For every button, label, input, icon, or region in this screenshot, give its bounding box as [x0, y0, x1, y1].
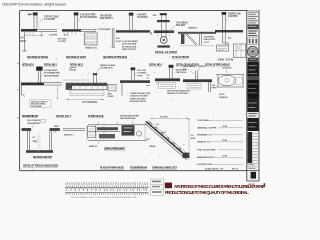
- svg-text:STAIR AND LANDING DET: STAIR AND LANDING DET: [152, 167, 177, 170]
- svg-text:PLATE: PLATE: [108, 95, 115, 98]
- svg-text:LOCKING: LOCKING: [137, 73, 147, 75]
- svg-text:INLET: INLET: [71, 69, 77, 71]
- svg-text:LENGTH OF PIPE RUN: LENGTH OF PIPE RUN: [167, 93, 188, 95]
- svg-text:PIPE: PIPE: [212, 88, 217, 90]
- svg-text:OVERFLOW: OVERFLOW: [228, 13, 241, 15]
- svg-text:W CAP SCREEN: W CAP SCREEN: [80, 16, 97, 19]
- svg-text:TOP OF CONC: TOP OF CONC: [44, 17, 59, 19]
- svg-text:4 ELBOW 2 IN 90: 4 ELBOW 2 IN 90: [130, 100, 147, 103]
- svg-text:DETAIL OF PIPE SADDLE: DETAIL OF PIPE SADDLE: [205, 63, 230, 66]
- svg-text:PLAN OF PUMP HOUSE: PLAN OF PUMP HOUSE: [100, 167, 124, 170]
- svg-text:LINE SLOPE: LINE SLOPE: [204, 39, 216, 41]
- svg-text:2 VALVE 2 IN GATE: 2 VALVE 2 IN GATE: [130, 95, 149, 98]
- svg-text:NO 12: NO 12: [232, 168, 239, 170]
- svg-text:PLAN AT DRAIN: PLAN AT DRAIN: [172, 56, 189, 59]
- svg-text:4-1/2 CRS BARS: 4-1/2 CRS BARS: [122, 40, 138, 43]
- svg-text:1-2 FT: 1-2 FT: [204, 42, 210, 44]
- svg-text:FOUNDATION PLAN: FOUNDATION PLAN: [130, 167, 147, 170]
- svg-text:POST 3 IN STD PIPE: POST 3 IN STD PIPE: [197, 150, 216, 152]
- svg-text:SCALE 3/4 IN - 1 FT: SCALE 3/4 IN - 1 FT: [205, 167, 224, 170]
- svg-text:END VIEW: END VIEW: [218, 58, 234, 61]
- svg-text:BASE PL: BASE PL: [89, 145, 98, 148]
- svg-text:2 IN: 2 IN: [183, 69, 187, 71]
- svg-text:1/2 IN: 1/2 IN: [222, 140, 227, 142]
- svg-text:12-0 OVERALL: 12-0 OVERALL: [82, 101, 98, 104]
- svg-text:STRINGER C 10: STRINGER C 10: [197, 135, 212, 137]
- svg-text:TREAD: TREAD: [149, 145, 156, 148]
- svg-text:GENERAL ARRANGEMENT: GENERAL ARRANGEMENT: [104, 147, 126, 150]
- svg-text:PHOTOGRAPHIC REDUCTION SCALE F: PHOTOGRAPHIC REDUCTION SCALE FOR MICROFI…: [71, 196, 137, 199]
- svg-text:GRATING: GRATING: [188, 27, 197, 30]
- svg-text:1 TANK 500 GAL CAP: 1 TANK 500 GAL CAP: [130, 92, 151, 95]
- svg-text:RISE: RISE: [191, 138, 196, 140]
- svg-text:3/8 PL EA SIDE: 3/8 PL EA SIDE: [122, 43, 137, 46]
- svg-text:MICRO: MICRO: [249, 184, 256, 186]
- svg-text:8-0 RUN: 8-0 RUN: [160, 116, 168, 118]
- svg-text:DETAIL OF TROUGH AND COVER: DETAIL OF TROUGH AND COVER: [23, 164, 58, 167]
- svg-text:DETAIL NO 1: DETAIL NO 1: [22, 63, 35, 66]
- svg-text:1 2 3 4 5 6 7 8 9 10 11 12 13: 1 2 3 4 5 6 7 8 9 10 11 12 13 14 15 16: [66, 189, 148, 192]
- svg-text:SECTION AT DRAIN: SECTION AT DRAIN: [27, 55, 48, 59]
- svg-text:HANDRAIL 1 1/4 PIPE: HANDRAIL 1 1/4 PIPE: [197, 127, 217, 130]
- svg-text:PRODUCTION DUE TO THE QUALITY: PRODUCTION DUE TO THE QUALITY OF THE ORI…: [165, 190, 249, 195]
- svg-text:SECTION AT PIPE RUN: SECTION AT PIPE RUN: [103, 55, 127, 59]
- svg-text:2 IN VENT PIPE: 2 IN VENT PIPE: [80, 15, 96, 17]
- svg-text:RISER: RISER: [199, 66, 205, 68]
- svg-text:COVER 20 IN: COVER 20 IN: [100, 68, 113, 70]
- svg-text:UNIT MOUNTED: UNIT MOUNTED: [120, 118, 136, 120]
- svg-text:RETURN BEND: RETURN BEND: [44, 75, 59, 77]
- svg-text:PUMP DETAIL: PUMP DETAIL: [88, 115, 104, 118]
- svg-text:2-6 PIPE: 2-6 PIPE: [49, 34, 58, 36]
- svg-text:BASE ANGLE 3X3: BASE ANGLE 3X3: [197, 156, 214, 159]
- svg-text:TREAD PL 1/4: TREAD PL 1/4: [197, 141, 211, 144]
- svg-text:MOTOR AND PUMP: MOTOR AND PUMP: [120, 114, 140, 117]
- svg-text:SIDE OF POST: SIDE OF POST: [122, 49, 137, 51]
- svg-text:FILL CAP: FILL CAP: [137, 69, 147, 72]
- svg-text:DETAIL OF RISER: DETAIL OF RISER: [155, 51, 177, 54]
- svg-text:3 PIPE 2 IN GALV: 3 PIPE 2 IN GALV: [130, 97, 147, 100]
- svg-text:POST: POST: [116, 41, 122, 43]
- svg-text:FOOTING CONC: FOOTING CONC: [197, 164, 213, 166]
- svg-text:SECTION AT VENT: SECTION AT VENT: [66, 55, 86, 59]
- svg-text:1/2 IN: 1/2 IN: [222, 126, 227, 128]
- svg-text:DETAIL NO 5: DETAIL NO 5: [149, 63, 163, 66]
- svg-text:FILTER BED: FILTER BED: [99, 29, 111, 31]
- svg-text:TO DRAIN: TO DRAIN: [137, 16, 148, 19]
- svg-text:1/2 BOLTS: 1/2 BOLTS: [222, 68, 232, 70]
- svg-text:SADDLE: SADDLE: [219, 96, 228, 99]
- svg-text:DETAIL NO 7: DETAIL NO 7: [56, 115, 72, 118]
- svg-text:SEE DET: SEE DET: [176, 25, 186, 27]
- svg-text:1-4 SLOPE: 1-4 SLOPE: [44, 18, 55, 21]
- svg-text:GN913-MP731A John Andrews - al: GN913-MP731A John Andrews - all rights r…: [2, 2, 66, 6]
- svg-text:2 IN: 2 IN: [212, 85, 216, 87]
- svg-text:4 IN: 4 IN: [116, 37, 120, 40]
- svg-text:SECTION THRU PIT: SECTION THRU PIT: [22, 115, 38, 118]
- svg-text:W 2 BOLTS EA: W 2 BOLTS EA: [122, 45, 137, 48]
- svg-text:2 IN UNION: 2 IN UNION: [176, 23, 188, 25]
- svg-text:SCH 40 MIN: SCH 40 MIN: [31, 105, 42, 108]
- svg-text:CAST IRON: CAST IRON: [176, 71, 187, 74]
- svg-text:DEEP: DEEP: [33, 141, 39, 143]
- svg-text:TYPE: TYPE: [137, 75, 143, 77]
- svg-text:4 IN PIPE: 4 IN PIPE: [137, 13, 147, 16]
- svg-text:W PLUG: W PLUG: [58, 38, 67, 40]
- svg-text:NO 6: NO 6: [21, 40, 27, 43]
- svg-text:FIN GRADE: FIN GRADE: [100, 15, 112, 18]
- svg-text:DETAIL NO 3: DETAIL NO 3: [70, 63, 84, 66]
- svg-text:DETAIL NO 2: DETAIL NO 2: [44, 63, 58, 66]
- svg-text:CL PIPE: CL PIPE: [58, 41, 66, 43]
- svg-text:CAP: CAP: [153, 14, 158, 17]
- svg-text:SECTION THRU PIT: SECTION THRU PIT: [33, 156, 52, 159]
- svg-text:3 IN DRAIN: 3 IN DRAIN: [204, 36, 215, 39]
- svg-text:GRAVEL FILL: GRAVEL FILL: [85, 47, 98, 50]
- svg-text:1/2 IN: 1/2 IN: [222, 155, 227, 157]
- svg-text:1/4 PL: 1/4 PL: [219, 93, 226, 96]
- svg-text:3/8 COVER PL: 3/8 COVER PL: [27, 120, 41, 122]
- svg-text:SEE DET 2: SEE DET 2: [64, 135, 74, 137]
- svg-text:1 IN AIR VENT: 1 IN AIR VENT: [44, 69, 58, 72]
- svg-text:SEE NOTE 3: SEE NOTE 3: [100, 18, 113, 20]
- svg-text:2 IN PIPE: 2 IN PIPE: [228, 16, 238, 18]
- svg-text:MANHOLE AND: MANHOLE AND: [100, 64, 116, 67]
